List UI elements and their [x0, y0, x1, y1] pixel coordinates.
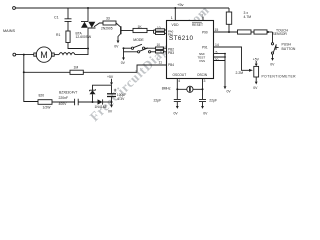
wire to touch sensor: [267, 31, 273, 33]
svg-text:MAINS: MAINS: [3, 29, 15, 33]
svg-text:0V: 0V: [174, 112, 179, 116]
svg-text:RESET: RESET: [192, 23, 203, 27]
+5V tap to pot: [253, 57, 260, 66]
svg-text:PB3: PB3: [168, 51, 174, 55]
resistor 4.7M a: [238, 30, 252, 34]
inductor coil: [59, 53, 88, 55]
svg-text:1K: 1K: [138, 25, 143, 29]
svg-text:OSCIN: OSCIN: [197, 73, 208, 77]
svg-text:VDD: VDD: [172, 23, 180, 27]
svg-text:820: 820: [39, 94, 45, 98]
svg-text:400V: 400V: [59, 102, 68, 106]
node push button: [267, 31, 269, 33]
resistor 1M: [24, 65, 84, 74]
svg-text:12-600SW: 12-600SW: [76, 35, 92, 39]
svg-text:6.3V: 6.3V: [118, 97, 126, 101]
svg-text:VSS: VSS: [199, 59, 205, 63]
push button S3: [270, 32, 296, 66]
svg-text:POTENTIOMETER: POTENTIOMETER: [262, 74, 297, 78]
svg-text:14: 14: [215, 43, 219, 47]
svg-text:P91: P91: [202, 45, 208, 49]
svg-text:3: 3: [204, 79, 206, 83]
resistor 33: [103, 17, 116, 25]
svg-text:1: 1: [171, 16, 173, 20]
node psu branch: [23, 54, 25, 56]
node P90-4.7M: [228, 31, 230, 33]
svg-text:8MHz: 8MHz: [162, 87, 171, 91]
node snubber-triac: [87, 48, 89, 50]
wire to PB4 pin 11: [83, 65, 166, 72]
svg-text:0V: 0V: [121, 61, 126, 65]
crystal X1 8MHz: [162, 79, 206, 93]
wire P90 pin 15: [214, 31, 238, 33]
resistors 2x10 to PB2 PB3: [156, 43, 167, 53]
svg-text:4.7M: 4.7M: [244, 15, 252, 19]
triac BTA12-600SW: [76, 8, 104, 55]
zener BZX83C4V7: [59, 85, 112, 103]
svg-text:SENSOR: SENSOR: [273, 32, 288, 36]
svg-text:P90: P90: [202, 30, 208, 34]
mode switch common 0V: [121, 47, 126, 65]
svg-text:11: 11: [159, 60, 163, 64]
svg-text:0V: 0V: [203, 112, 208, 116]
svg-text:10: 10: [157, 26, 161, 30]
svg-text:220nF: 220nF: [59, 96, 69, 100]
node triac top: [87, 7, 89, 9]
resistor 4.7M vertical: [226, 8, 251, 32]
svg-text:BZX83C4V7: BZX83C4V7: [59, 91, 77, 95]
resistor 820: [38, 94, 75, 110]
capacitor 100uF 6.3V: [107, 85, 126, 113]
svg-text:0V: 0V: [270, 62, 275, 66]
svg-text:0V: 0V: [227, 90, 232, 94]
svg-text:33: 33: [106, 17, 110, 21]
capacitor 22pF left: [154, 89, 181, 115]
svg-text:1/2W: 1/2W: [43, 106, 52, 110]
resistor 4.7M b: [254, 30, 267, 34]
svg-text:4: 4: [178, 79, 180, 83]
node VDD rail: [174, 7, 176, 9]
diode 1N4148: [93, 99, 112, 109]
IC U1 ST6210: [167, 21, 214, 79]
pot 0V tap: [253, 77, 258, 90]
capacitor 220nF 400V: [59, 96, 93, 106]
svg-text:20: 20: [215, 58, 219, 62]
svg-text:15: 15: [215, 28, 219, 32]
svg-text:MODE: MODE: [133, 38, 144, 42]
resistors 2x10 to PA0 PA1: [154, 26, 167, 34]
switch S1: [124, 44, 156, 49]
resistor 1K: [133, 25, 154, 33]
mains terminal top: [13, 7, 16, 10]
svg-text:2.2M: 2.2M: [236, 71, 244, 75]
capacitor 22pF right: [199, 89, 217, 115]
wire P91 pin 14: [214, 47, 250, 70]
motor M: [34, 47, 59, 62]
resistor R1: [56, 31, 87, 49]
svg-text:BUTTON: BUTTON: [282, 47, 296, 51]
svg-text:2N2905: 2N2905: [101, 26, 113, 30]
pin 7 RESET stub: [202, 17, 204, 21]
capacitor C1: [54, 8, 72, 31]
potentiometer 2.2M: [236, 66, 297, 78]
svg-text:PA1: PA1: [168, 33, 174, 37]
svg-text:22pF: 22pF: [209, 98, 217, 102]
svg-text:1N4148: 1N4148: [95, 105, 107, 109]
svg-text:7: 7: [201, 14, 203, 18]
svg-text:22pF: 22pF: [154, 98, 162, 102]
svg-text:+5V: +5V: [253, 57, 260, 61]
svg-text:0V: 0V: [108, 110, 113, 114]
+5V tap psu: [107, 75, 114, 85]
svg-text:0V: 0V: [114, 44, 119, 48]
transistor Q1 2N2905: [101, 23, 133, 48]
NMI TEST VSS stubs to 0V: [214, 50, 232, 93]
svg-text:+5v: +5v: [177, 2, 184, 7]
wire top +5v rail: [15, 7, 229, 9]
mains terminal bottom: [13, 53, 16, 56]
node 1M row: [23, 71, 25, 73]
svg-text:5: 5: [216, 50, 218, 54]
pin 1 VDD stub: [174, 8, 176, 21]
wire: [251, 31, 254, 33]
svg-text:M: M: [40, 50, 48, 60]
svg-text:1M: 1M: [74, 65, 79, 69]
svg-text:10: 10: [157, 43, 161, 47]
switch S2: [124, 48, 156, 53]
svg-text:OSCOUT: OSCOUT: [173, 73, 187, 77]
svg-text:R1: R1: [56, 33, 60, 37]
wire psu drop column: [24, 55, 38, 102]
svg-text:+5V: +5V: [107, 75, 114, 79]
svg-text:C1: C1: [54, 16, 59, 20]
svg-text:0V: 0V: [253, 86, 258, 90]
wire motor row: [16, 54, 34, 56]
svg-text:PB4: PB4: [168, 63, 174, 67]
